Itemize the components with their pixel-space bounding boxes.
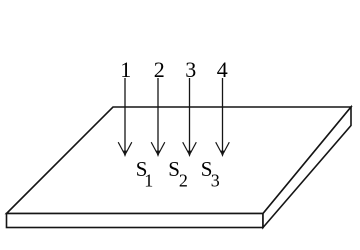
svg-text:4: 4 — [217, 57, 228, 82]
arrow 1 shaft — [124, 78, 126, 153]
arrow 3 shaft — [189, 78, 191, 153]
plate right side face — [263, 107, 351, 228]
arrow 4 shaft — [222, 78, 224, 153]
svg-text:1: 1 — [144, 170, 153, 190]
arrow 3 head — [183, 142, 197, 156]
svg-text:3: 3 — [185, 57, 196, 82]
plate top face — [7, 107, 352, 214]
arrow 4 head — [216, 142, 230, 156]
svg-text:2: 2 — [179, 170, 188, 190]
arrow 2 shaft — [157, 78, 159, 153]
label S1 — [136, 157, 154, 190]
label S2 — [168, 157, 188, 190]
svg-text:3: 3 — [211, 170, 220, 190]
plate front face — [7, 214, 264, 228]
label S3 — [201, 157, 220, 190]
svg-text:1: 1 — [120, 57, 131, 82]
svg-text:2: 2 — [154, 57, 165, 82]
arrow 1 head — [118, 142, 132, 156]
arrow 2 head — [151, 142, 165, 156]
